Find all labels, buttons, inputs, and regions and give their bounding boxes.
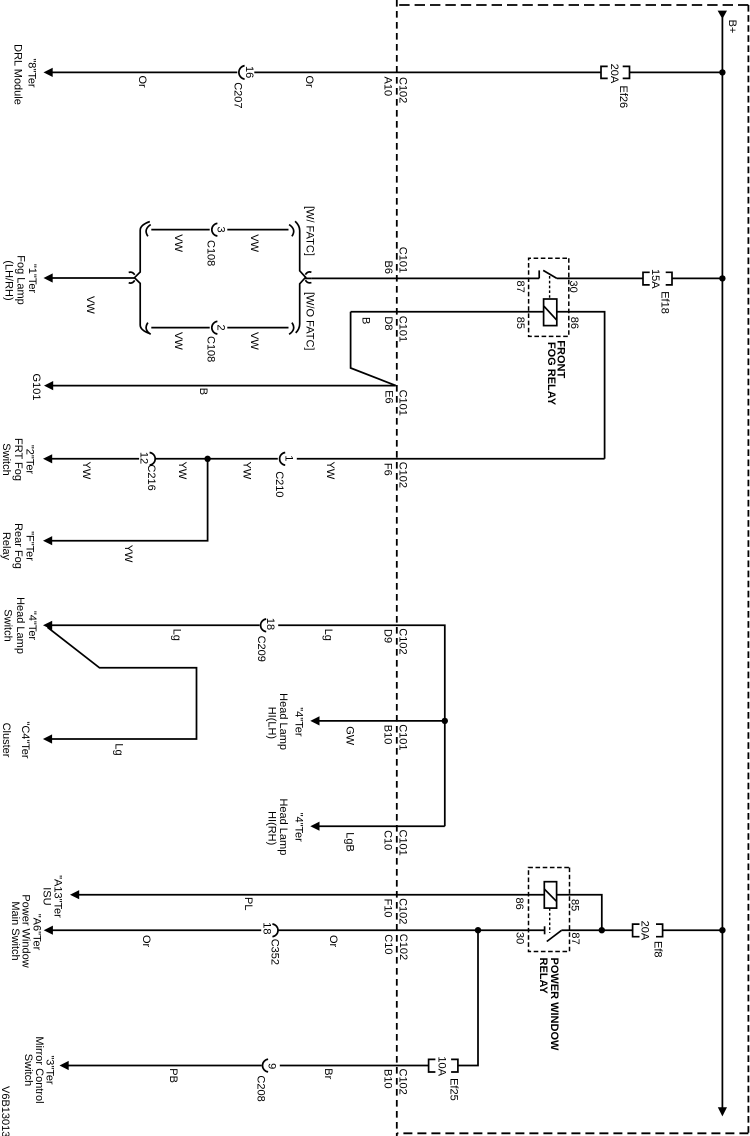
wire: junction to mirror circuit xyxy=(458,930,478,1065)
svg-text:C102: C102 xyxy=(396,1069,408,1095)
svg-text:9: 9 xyxy=(265,1063,277,1069)
wire: fuse Ef26 to connector C207 xyxy=(254,71,601,73)
svg-text:C10: C10 xyxy=(382,830,394,850)
svg-text:86: 86 xyxy=(568,317,580,329)
B+ bus left arrow xyxy=(718,11,727,19)
svg-text:LgB: LgB xyxy=(344,832,356,852)
svg-text:G101: G101 xyxy=(30,374,42,401)
svg-text:20A: 20A xyxy=(608,64,620,84)
front fog relay switch contact tick xyxy=(538,270,540,278)
svg-text:Lg: Lg xyxy=(322,629,334,641)
label "A13"Ter ISU xyxy=(41,875,64,918)
svg-text:PB: PB xyxy=(167,1068,179,1083)
svg-text:20A: 20A xyxy=(639,921,651,941)
label "3"Ter Mirror Control Switch xyxy=(22,1036,55,1103)
wire: coil 85 feed from junction xyxy=(557,895,602,931)
wire: C210 to junction xyxy=(155,458,277,460)
svg-text:C101: C101 xyxy=(396,830,408,856)
svg-text:Main Switch: Main Switch xyxy=(9,901,21,960)
fuse block dashed border right edge xyxy=(397,1132,749,1134)
wire: C208 to mirror control switch arrow xyxy=(68,1065,262,1067)
option merge squiggle xyxy=(305,272,311,283)
label "4"Ter Head Lamp HI(LH) xyxy=(266,693,305,750)
svg-text:GW: GW xyxy=(344,726,356,746)
svg-text:Switch: Switch xyxy=(22,1054,34,1086)
wire: head lamp switch feed (top run) xyxy=(278,625,445,826)
svg-text:"C4"Ter: "C4"Ter xyxy=(19,721,31,758)
front fog relay coil xyxy=(544,299,557,326)
node: head lamp HI(LH) junction xyxy=(442,718,448,724)
svg-text:87: 87 xyxy=(514,281,526,293)
fuse block dashed border top edge xyxy=(747,5,749,1134)
svg-text:B10: B10 xyxy=(382,1069,394,1089)
svg-text:YW: YW xyxy=(324,462,336,480)
arrow to head lamp HI(LH) xyxy=(310,716,319,725)
svg-text:C210: C210 xyxy=(273,471,285,497)
svg-text:[W/O FATC]: [W/O FATC] xyxy=(303,292,315,350)
label "2"Ter FRT Fog Switch xyxy=(0,438,36,481)
power window relay switch blade xyxy=(547,930,562,941)
wire: jog to C101 E6 xyxy=(351,312,396,386)
connector C108 pin 2 xyxy=(212,321,218,334)
wire: fog circuit B6 down to option brace xyxy=(305,277,311,279)
label "A6"Ter Power Window Main Switch xyxy=(9,894,43,967)
svg-text:D9: D9 xyxy=(382,629,394,643)
svg-text:POWER WINDOW: POWER WINDOW xyxy=(548,958,560,1051)
svg-text:D8: D8 xyxy=(382,316,394,330)
svg-text:10A: 10A xyxy=(436,1056,448,1076)
wire: to head lamp HI(RH) xyxy=(319,825,445,827)
svg-text:C207: C207 xyxy=(232,82,244,108)
arrow to FRT fog switch xyxy=(43,454,52,463)
svg-text:B: B xyxy=(197,388,209,395)
svg-text:FOG RELAY: FOG RELAY xyxy=(545,342,557,406)
node: bus junction front fog xyxy=(719,275,725,281)
svg-text:C208: C208 xyxy=(254,1075,266,1101)
svg-text:"1"Ter: "1"Ter xyxy=(26,264,38,294)
svg-text:Head Lamp: Head Lamp xyxy=(277,798,289,855)
svg-text:FRT Fog: FRT Fog xyxy=(12,438,24,481)
arrow to cluster xyxy=(43,734,52,743)
wire: front fog relay coil 86 up xyxy=(557,312,605,459)
svg-text:YW: YW xyxy=(176,462,188,480)
svg-text:C10: C10 xyxy=(382,934,394,954)
svg-text:A10: A10 xyxy=(382,77,394,97)
connector C207 pin 16 xyxy=(239,66,245,80)
svg-text:PL: PL xyxy=(242,897,254,910)
svg-text:18: 18 xyxy=(264,618,276,630)
arrow to mirror control switch xyxy=(60,1061,69,1070)
fuse Ef25 10A xyxy=(429,1059,458,1072)
svg-text:Ef18: Ef18 xyxy=(659,291,671,314)
option merge brace (W/ FATC vs W/O FATC) xyxy=(295,221,306,333)
arrow to head lamp HI(RH) xyxy=(310,822,319,831)
wire: brace to fog lamp arrow xyxy=(52,277,135,279)
svg-text:"8"Ter: "8"Ter xyxy=(26,58,38,88)
svg-text:Ef26: Ef26 xyxy=(617,86,629,109)
svg-text:18: 18 xyxy=(261,922,273,934)
svg-text:Lg: Lg xyxy=(171,629,183,641)
svg-text:VW: VW xyxy=(172,332,184,350)
svg-text:86: 86 xyxy=(513,898,525,910)
svg-text:15A: 15A xyxy=(649,269,661,289)
svg-text:F10: F10 xyxy=(382,899,394,918)
label "8"Ter DRL Module xyxy=(12,44,38,105)
svg-text:ISU: ISU xyxy=(41,887,53,905)
wire: front fog relay pin 87 down to fog lamp circuit xyxy=(311,277,539,279)
connector C108 pin 3 xyxy=(212,223,218,236)
svg-text:RELAY: RELAY xyxy=(537,958,549,995)
wire: bus to fuse Ef8 xyxy=(663,929,723,931)
svg-text:"4"Ter: "4"Ter xyxy=(292,813,304,843)
svg-text:3: 3 xyxy=(215,226,227,232)
svg-text:B: B xyxy=(359,317,371,324)
branch tip hook (right branch top) xyxy=(289,323,294,335)
wire: left option branch lower xyxy=(151,229,209,231)
svg-text:30: 30 xyxy=(567,281,579,293)
svg-text:DRL Module: DRL Module xyxy=(12,44,24,105)
svg-text:Fog Lamp: Fog Lamp xyxy=(15,255,27,305)
wire: fuse Ef18 to front fog relay pin 30 xyxy=(557,277,643,279)
svg-text:B6: B6 xyxy=(382,261,394,274)
connector C216 pin 12 xyxy=(150,453,156,466)
label POWER WINDOW RELAY xyxy=(537,958,560,1051)
branch tip hook (left branch top) xyxy=(289,225,294,237)
relay: FRONT FOG RELAY dashed box xyxy=(529,258,569,336)
svg-text:87: 87 xyxy=(569,932,581,944)
label "4"Ter Head Lamp HI(RH) xyxy=(266,798,305,855)
branch tip hook (right branch bottom) xyxy=(146,323,151,335)
svg-text:C108: C108 xyxy=(204,336,216,362)
svg-text:Ef25: Ef25 xyxy=(447,1078,459,1101)
svg-text:12: 12 xyxy=(138,452,150,464)
power window relay switch contact tick xyxy=(544,926,546,934)
svg-text:C101: C101 xyxy=(397,247,409,273)
wire: right option branch lower xyxy=(151,327,209,329)
svg-text:(LH/RH): (LH/RH) xyxy=(3,260,15,300)
fuse Ef8 20A xyxy=(633,924,663,937)
svg-text:HI(LH): HI(LH) xyxy=(266,707,278,739)
B+ bus xyxy=(721,16,723,1108)
wire: right option branch (W/O FATC) xyxy=(227,327,288,329)
wire: relay pin 30 to main switch arrow xyxy=(278,929,544,931)
front fog relay actuator dashed link xyxy=(549,276,551,299)
node: bus junction DRL xyxy=(719,69,725,75)
label "4"Ter Head Lamp Switch xyxy=(2,597,39,654)
wire: to head lamp HI(LH) xyxy=(319,720,445,722)
arrow to G101 xyxy=(44,381,53,390)
svg-text:VW: VW xyxy=(84,296,96,314)
svg-text:C101: C101 xyxy=(396,390,408,416)
wire: relay 86 junction to FRT fog switch circuit xyxy=(297,458,605,460)
node: rear fog relay branch junction xyxy=(204,456,210,462)
svg-text:Br: Br xyxy=(322,1068,334,1079)
svg-text:C102: C102 xyxy=(396,898,408,924)
svg-text:C102: C102 xyxy=(397,934,409,960)
svg-text:VW: VW xyxy=(172,234,184,252)
svg-text:16: 16 xyxy=(243,66,255,78)
svg-text:C102: C102 xyxy=(396,628,408,654)
svg-text:Relay: Relay xyxy=(0,532,12,561)
svg-text:Head Lamp: Head Lamp xyxy=(14,597,26,654)
front fog relay switch blade xyxy=(543,270,557,278)
svg-text:Head Lamp: Head Lamp xyxy=(277,693,289,750)
svg-text:"F"Ter: "F"Ter xyxy=(24,531,36,561)
wire: front fog relay coil 85 down xyxy=(351,311,544,313)
svg-text:VW: VW xyxy=(248,332,260,350)
svg-text:HI(RH): HI(RH) xyxy=(266,811,278,845)
svg-text:C352: C352 xyxy=(268,939,280,965)
fuse Ef26 20A xyxy=(601,66,630,78)
svg-text:C108: C108 xyxy=(204,240,216,266)
svg-text:"2"Ter: "2"Ter xyxy=(24,445,36,475)
svg-text:C216: C216 xyxy=(145,464,157,490)
connector C209 pin 18 xyxy=(261,619,267,632)
wire: C352 to main switch arrow xyxy=(52,929,261,931)
arrow to power window main switch xyxy=(44,926,53,935)
svg-text:Or: Or xyxy=(327,935,339,948)
svg-text:B+: B+ xyxy=(726,20,738,34)
wire: C207 to DRL module arrow xyxy=(52,71,238,73)
svg-text:85: 85 xyxy=(514,317,526,329)
fuse block boundary dashed line (full width) xyxy=(396,0,398,1136)
wire: bus to fuse Ef18 xyxy=(672,277,722,279)
svg-text:1: 1 xyxy=(282,455,294,461)
svg-text:Or: Or xyxy=(136,76,148,89)
label "1"Ter Fog Lamp (LH/RH) xyxy=(3,255,38,305)
arrow to ISU xyxy=(70,890,79,899)
svg-text:Rear Fog: Rear Fog xyxy=(12,523,24,569)
svg-text:[W/ FATC]: [W/ FATC] xyxy=(303,206,315,256)
connector C352 pin 18 xyxy=(272,924,278,937)
svg-text:"4"Ter: "4"Ter xyxy=(26,611,38,641)
svg-text:YW: YW xyxy=(122,545,134,563)
label "F"Ter Rear Fog Relay xyxy=(0,523,36,569)
svg-text:Cluster: Cluster xyxy=(0,723,12,758)
power window relay actuator dashed link xyxy=(549,908,551,933)
svg-text:YW: YW xyxy=(241,462,253,480)
svg-text:VW: VW xyxy=(248,234,260,252)
svg-text:Or: Or xyxy=(303,76,315,89)
wire: left option branch (W/ FATC) xyxy=(227,229,288,231)
option split brace (to fog lamp) xyxy=(135,222,150,334)
svg-text:Or: Or xyxy=(140,935,152,948)
wire: coil 86 to ISU arrow xyxy=(78,894,544,896)
wire: E6 to G101 ground arrow xyxy=(53,385,396,387)
node: relay coil feed junction xyxy=(599,927,605,933)
wire: cluster branch xyxy=(48,627,197,739)
wire: fuse Ef8 to power window relay pin 87 xyxy=(561,929,632,931)
svg-text:B10: B10 xyxy=(382,725,394,745)
wire: C216 to FRT fog switch arrow xyxy=(51,458,139,460)
svg-text:C101: C101 xyxy=(396,316,408,342)
connector C208 pin 9 xyxy=(262,1059,268,1072)
B+ bus right arrow xyxy=(718,1107,727,1116)
label "C4"Ter Cluster xyxy=(0,721,31,758)
svg-text:"4"Ter: "4"Ter xyxy=(292,707,304,737)
svg-text:C101: C101 xyxy=(396,724,408,750)
svg-text:"A13"Ter: "A13"Ter xyxy=(52,875,64,918)
svg-text:Lg: Lg xyxy=(112,743,124,755)
svg-text:C102: C102 xyxy=(396,462,408,488)
svg-text:85: 85 xyxy=(569,899,581,911)
node: mirror branch junction xyxy=(475,927,481,933)
branch tip hook (left branch bottom) xyxy=(146,225,151,237)
fuse block dashed border left edge xyxy=(397,4,749,6)
svg-text:Ef8: Ef8 xyxy=(651,941,663,958)
svg-text:30: 30 xyxy=(513,932,525,944)
svg-text:C102: C102 xyxy=(396,77,408,103)
svg-text:Switch: Switch xyxy=(2,609,14,641)
svg-text:2: 2 xyxy=(215,324,227,330)
fuse Ef18 15A xyxy=(643,272,672,285)
wire: C209 to head lamp switch arrow xyxy=(52,624,260,626)
arrow to fog lamp xyxy=(44,273,53,282)
power window relay coil xyxy=(544,882,556,908)
node: bus junction power window xyxy=(719,927,725,933)
svg-text:C209: C209 xyxy=(255,636,267,662)
arrow to rear fog relay xyxy=(43,536,52,545)
wire: fuse Ef25 to C208 xyxy=(280,1065,429,1067)
option split squiggle xyxy=(129,272,135,283)
relay: POWER WINDOW RELAY dashed box xyxy=(529,868,570,952)
svg-text:YW: YW xyxy=(80,462,92,480)
svg-text:E6: E6 xyxy=(382,390,394,403)
arrow to head lamp switch xyxy=(43,621,52,630)
label FRONT FOG RELAY xyxy=(545,340,567,405)
wire: bus to fuse Ef26 xyxy=(630,71,723,73)
arrow to DRL module xyxy=(44,68,53,77)
svg-text:F6: F6 xyxy=(382,463,394,476)
connector C210 pin 1 xyxy=(280,453,286,466)
svg-text:V6B13013: V6B13013 xyxy=(0,1086,11,1136)
svg-text:Switch: Switch xyxy=(0,443,12,475)
wire: junction to rear fog relay branch xyxy=(51,459,207,541)
